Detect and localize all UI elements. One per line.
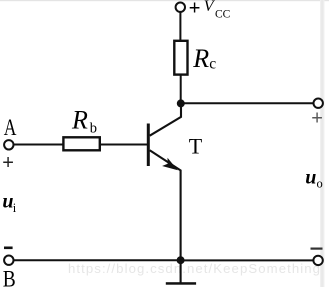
right edge band artifact [320, 0, 325, 287]
ground stem [180, 264, 182, 283]
label uo [305, 167, 322, 191]
terminal B [4, 256, 13, 265]
svg-text:+: + [2, 152, 14, 174]
wire B to ground node [13, 259, 180, 261]
transistor T base bar [147, 124, 150, 167]
svg-text:https://blog.csdn.net/KeepSome: https://blog.csdn.net/KeepSomething [68, 261, 320, 276]
terminal A [4, 140, 13, 149]
transistor emitter lead [150, 150, 181, 260]
label ui [2, 191, 16, 216]
svg-text:R: R [71, 105, 88, 134]
svg-text:b: b [90, 121, 97, 137]
node ground junction [177, 256, 185, 264]
svg-text:B: B [3, 267, 16, 287]
resistor Rb [63, 137, 99, 150]
svg-text:u: u [305, 167, 316, 189]
svg-text:R: R [192, 44, 209, 73]
node collector junction [177, 99, 185, 107]
svg-text:i: i [13, 201, 17, 215]
svg-text:CC: CC [215, 9, 231, 21]
transistor collector lead [150, 103, 181, 135]
top border artifact [0, 0, 329, 1]
svg-text:o: o [317, 176, 323, 190]
resistor Rc [174, 41, 187, 75]
label Rb [71, 105, 97, 136]
svg-text:A: A [4, 115, 17, 140]
label minus (right) [311, 248, 323, 250]
wire A to Rb [13, 144, 63, 146]
terminal output + [314, 99, 323, 108]
ground bar [166, 282, 196, 285]
label Rc [192, 44, 216, 73]
wire collector to output [181, 102, 314, 104]
wire Vcc to Rc [179, 12, 181, 41]
emitter arrowhead [162, 158, 178, 170]
svg-text:+: + [311, 107, 323, 129]
wire Rb to base [100, 144, 147, 146]
svg-text:T: T [189, 133, 203, 158]
label +Vcc [189, 0, 231, 21]
wire ground node to output minus [181, 259, 314, 261]
terminal output minus [313, 256, 322, 265]
wire Rc to collector node [180, 75, 182, 104]
svg-text:c: c [209, 55, 216, 72]
svg-text:+: + [189, 0, 201, 19]
label minus (left) [4, 247, 13, 250]
terminal +Vcc [176, 3, 185, 12]
